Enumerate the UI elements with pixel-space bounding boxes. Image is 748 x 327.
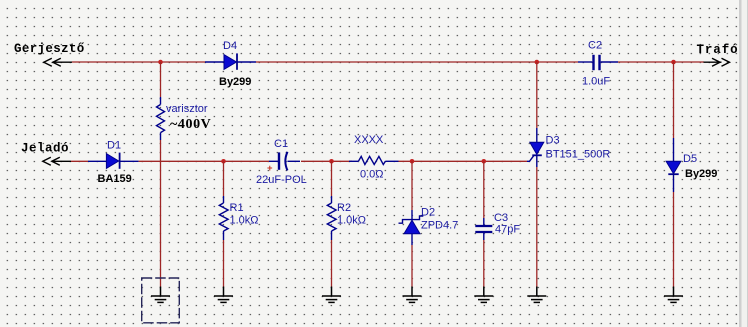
svg-text:D4: D4 [223,40,237,52]
diode D1 [88,153,139,169]
wire mid rail seg2 [139,160,270,162]
svg-text:0.0Ω: 0.0Ω [360,169,384,181]
wire R2 bottom [331,240,333,287]
svg-text:Trafó: Trafó [697,43,739,57]
ground (D5) [664,287,683,303]
diode D4 [205,53,256,69]
svg-text:D1: D1 [107,140,121,152]
wire mid rail seg4 [399,160,528,162]
svg-text:R1: R1 [230,202,244,214]
capacitor C1 (polarized) [269,152,300,171]
svg-text:47pF: 47pF [495,224,520,236]
port Trafo arrow [704,58,730,66]
resistor R1 [219,196,228,240]
wire mid rail to gate [527,156,534,162]
svg-text:ZPD4.7: ZPD4.7 [421,220,458,232]
svg-text:varisztor: varisztor [166,103,208,115]
svg-text:XXXX: XXXX [354,134,384,146]
svg-text:1.0kΩ: 1.0kΩ [337,215,366,227]
svg-text:By299: By299 [219,76,251,88]
junction C3 tap [482,159,487,164]
junction top at varistor [158,60,163,65]
wire D5 to ground [673,192,675,287]
dashed selection box [142,278,180,323]
port Gerjeszto arrow [44,58,72,66]
svg-text:22uF-POL: 22uF-POL [256,174,307,186]
ground (C3) [474,287,493,303]
svg-text:C3: C3 [494,212,508,224]
svg-text:R2: R2 [337,202,351,214]
wire mid rail seg1 [71,160,88,162]
ground (R1) [214,287,233,303]
diode D5 [666,138,681,192]
wire R1 bottom [223,240,225,287]
svg-text:Gerjesztő: Gerjesztő [14,42,85,56]
resistor R2 [327,196,336,240]
port Jelado arrow [43,157,71,165]
svg-text:D2: D2 [421,207,435,219]
svg-text:~400V: ~400V [170,117,211,132]
svg-text:C2: C2 [588,40,602,52]
wire varistor top [160,62,162,97]
capacitor C3 [475,161,492,286]
wire mid rail seg3 [301,160,352,162]
wire top rail middle [256,61,578,63]
varistor (resistor symbol) [157,97,165,140]
wire R1 top [223,161,225,196]
svg-text:+: + [267,163,273,174]
svg-text:C1: C1 [274,138,288,150]
window right edge [739,0,742,327]
ground (varistor, in dashed box) [151,287,170,303]
thyristor D3 [530,128,544,167]
ground (D2) [403,287,422,303]
svg-text:BA159: BA159 [98,173,132,185]
svg-text:By299: By299 [685,168,717,180]
ground (D3) [527,287,546,303]
wire top rail right [618,61,704,63]
svg-text:D3: D3 [546,135,560,147]
ground (R2) [322,287,341,303]
junction R2 tap [329,159,334,164]
svg-text:1.0uF: 1.0uF [582,76,610,88]
wire R2 top [331,161,333,196]
wire D3 anode [536,62,538,128]
wire varistor to ground [160,140,162,287]
junction R1 tap [221,159,226,164]
junction top at D5 [671,60,676,65]
wire D3 cathode to ground [536,167,538,287]
svg-text:Jeladó: Jeladó [21,142,69,156]
zener diode D2 [399,161,424,286]
svg-text:BT151_500R: BT151_500R [546,149,611,161]
svg-text:D5: D5 [683,153,697,165]
svg-text:1.0kΩ: 1.0kΩ [230,215,259,227]
junction top at D3 [535,60,540,65]
wire D5 top [673,62,675,138]
wire top rail left [72,61,205,63]
junction D2 tap [410,159,415,164]
capacitor C2 [578,55,618,70]
resistor XXXX 0.0ohm [349,156,399,164]
